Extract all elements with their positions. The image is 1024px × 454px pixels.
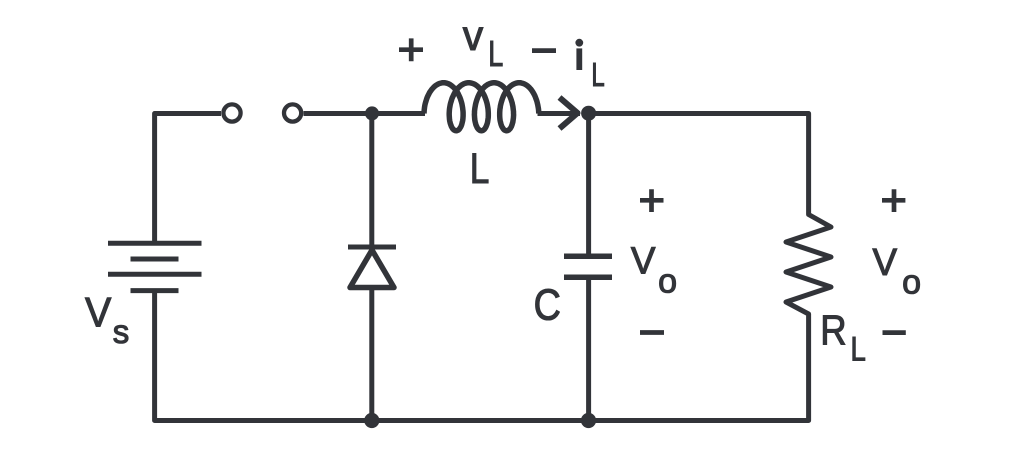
svg-text:o: o	[658, 263, 677, 301]
svg-text:L: L	[591, 57, 604, 94]
svg-text:v: v	[463, 11, 483, 59]
svg-text:V: V	[873, 240, 898, 283]
svg-text:L: L	[470, 145, 490, 193]
svg-text:V: V	[85, 288, 111, 335]
svg-text:R: R	[820, 307, 846, 354]
svg-text:L: L	[488, 33, 503, 74]
svg-text:s: s	[113, 313, 130, 350]
svg-text:L: L	[851, 330, 866, 369]
svg-text:V: V	[631, 239, 656, 282]
svg-text:o: o	[902, 264, 921, 302]
svg-text:C: C	[534, 280, 561, 329]
